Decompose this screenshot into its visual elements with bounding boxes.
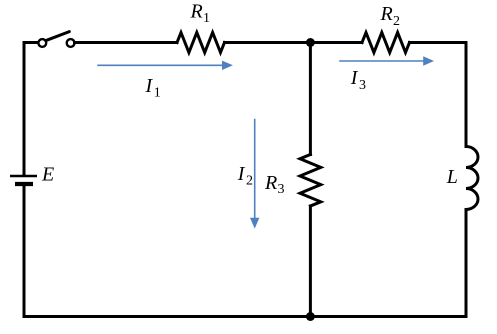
svg-text:3: 3 <box>278 182 285 197</box>
svg-text:E: E <box>41 164 54 186</box>
label R2 <box>380 3 401 29</box>
label R1 <box>190 0 211 26</box>
svg-text:2: 2 <box>246 174 253 189</box>
svg-text:I: I <box>145 75 154 97</box>
label I1 <box>145 75 161 101</box>
current arrow I3 <box>339 56 434 65</box>
wire middle rail (R3 down to node B) <box>309 206 312 317</box>
wire left rail (battery down to bottom corner) <box>23 185 26 316</box>
current arrow I2 <box>250 119 259 229</box>
svg-text:R: R <box>264 172 277 194</box>
wire R2 to top-right corner <box>410 41 467 44</box>
wire right rail (top corner down to inductor) <box>465 43 468 147</box>
wire top-left segment (corner to switch terminal) <box>24 41 38 44</box>
svg-text:R: R <box>380 3 393 25</box>
resistor R3 zigzag <box>300 155 321 207</box>
label R3 <box>264 172 285 197</box>
svg-text:1: 1 <box>203 11 210 26</box>
switch S1 blade <box>45 32 69 41</box>
svg-text:3: 3 <box>359 78 366 93</box>
battery E negative plate <box>15 182 33 186</box>
resistor R1 zigzag <box>177 33 225 53</box>
current arrow I1 <box>97 61 233 70</box>
wire switch to R1 <box>75 41 178 44</box>
wire bottom rail <box>24 315 466 318</box>
wire left rail (top corner down to battery) <box>23 43 26 175</box>
wire middle rail (node A down to R3) <box>309 43 312 155</box>
svg-text:I: I <box>237 163 246 185</box>
node B junction dot <box>306 312 315 321</box>
switch S1 right terminal <box>67 39 75 47</box>
battery E positive plate <box>10 175 37 178</box>
resistor R2 zigzag <box>362 33 410 53</box>
node A junction dot <box>306 38 315 47</box>
switch S1 left terminal <box>38 39 46 47</box>
wire R1 to node A to R2 <box>225 41 363 44</box>
label I2 <box>237 163 253 189</box>
label I3 <box>350 67 366 93</box>
svg-text:R: R <box>190 0 203 22</box>
wire right rail (inductor down to bottom corner) <box>465 210 468 317</box>
svg-text:1: 1 <box>154 86 161 101</box>
svg-text:2: 2 <box>393 14 400 29</box>
svg-text:L: L <box>446 166 458 188</box>
svg-text:I: I <box>350 67 359 89</box>
inductor L coil <box>466 147 478 210</box>
